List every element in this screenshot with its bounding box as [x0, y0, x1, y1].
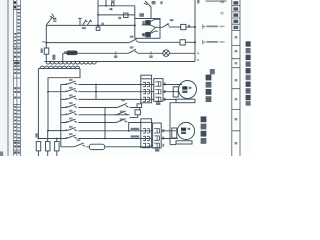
ladder bus V3	[60, 85, 62, 147]
ladder contact labels	[69, 79, 73, 81]
XT1 plug 1	[155, 82, 161, 86]
label above lamp-line switch	[130, 46, 134, 48]
wire y25.4 left section	[46, 24, 98, 26]
ticks left of dark component	[64, 51, 65, 53]
coil K2 leads	[142, 31, 158, 34]
resistor R3	[55, 142, 60, 151]
annotation right of bus wire1	[203, 24, 206, 29]
left supply bus x46.3	[45, 25, 47, 48]
motor1 bottom bar	[176, 99, 195, 103]
motor M1 vertical label text	[206, 75, 212, 102]
switch QS blade	[46, 14, 54, 25]
XP1 plug 3	[143, 97, 149, 101]
lamp HL	[163, 50, 170, 57]
right strip text blobs	[221, 1, 239, 145]
XT1 plug 2	[155, 90, 161, 94]
motor M2 vertical label text	[201, 116, 207, 143]
motor2 bottom bar	[176, 141, 192, 144]
sheet left border line	[7, 0, 9, 156]
mid contact rung 4	[117, 103, 128, 107]
fuse box FU2	[180, 40, 185, 45]
contact on lamp line	[129, 49, 138, 53]
junction wire inside box joining coils to exit	[150, 25, 160, 32]
mid contact rung 6	[116, 119, 127, 123]
cropped top text row right	[197, 0, 199, 3]
secondary right drop and jog to rail V2	[48, 69, 80, 131]
far right vertical drawing title text	[246, 41, 251, 105]
ladder rung 1	[61, 84, 154, 86]
connector strip XP1 (left half of terminal pair)	[141, 75, 152, 103]
label right of pilot box	[101, 23, 103, 25]
label left of top contact	[139, 13, 144, 17]
switch on bottom line	[74, 143, 85, 147]
pilot box hanging at x98	[97, 25, 99, 27]
tick on wire y42.3	[42, 41, 44, 42]
tick labels near right cap	[197, 53, 199, 55]
wire y27.3 from box to contact	[160, 26, 162, 28]
motor2 capacitor box	[172, 128, 177, 138]
coil K1 leads	[142, 19, 160, 25]
fuse box FU1	[181, 24, 186, 29]
ladder rung 7 into XT2	[48, 130, 153, 132]
wire FU1 to bus	[186, 26, 195, 28]
relay coil K1	[146, 21, 151, 26]
transformer secondary winding bumps	[40, 66, 80, 68]
contact rung 1	[66, 81, 77, 84]
contact rung 7	[66, 127, 77, 130]
riser from motor1 loop down	[170, 103, 176, 145]
tap from lamp line down to primary	[62, 53, 64, 61]
wire from riser to motor2 bar	[170, 144, 176, 146]
contact rung 6	[66, 119, 77, 122]
tick on lamp line x151	[150, 51, 152, 54]
right title strip frame	[232, 0, 240, 156]
XP1 plug 1	[143, 82, 149, 86]
stray label lower right annotation	[210, 69, 215, 74]
resistor R1 under rail V1	[36, 142, 41, 151]
contact rung 3	[66, 96, 77, 99]
vertical wire x106	[105, 0, 107, 6]
vertical link x96 rungs 1-3	[95, 85, 97, 100]
link x128.7 rung6 to rung7	[128, 123, 130, 131]
long wire y42.3	[46, 41, 180, 43]
XP2 plug 1	[143, 129, 149, 133]
contact rung 8	[66, 135, 77, 138]
vertical wire x98	[97, 0, 99, 25]
transformer primary winding bumps	[46, 62, 96, 65]
lamp line y53.3	[63, 52, 195, 54]
label left of component y14.9	[118, 17, 121, 19]
contact on y42.3	[129, 39, 138, 43]
label QS	[53, 18, 56, 20]
mid contact labels	[121, 99, 125, 101]
motor1 feed wires	[163, 85, 182, 92]
terminal block XT1	[154, 79, 163, 102]
XP2 plug 3	[143, 143, 149, 147]
component on bottom line	[89, 144, 104, 149]
thermal element on y5.8	[112, 3, 114, 6]
resistor R2 under rail V2	[46, 142, 51, 151]
wire rung3 to motor1 loop bar	[163, 98, 176, 100]
dark component on lamp line	[67, 51, 78, 55]
contact rung 5	[66, 111, 77, 114]
label box right of top contact	[152, 1, 156, 4]
XT2 pin labels	[162, 129, 164, 132]
label between FU1 and bus	[188, 25, 190, 28]
ladder rung 4	[61, 107, 140, 109]
faint marks left of right strip	[221, 1, 225, 3]
terminal block XT2	[153, 123, 162, 148]
stub up at x80	[78, 18, 82, 25]
ladder rung 2	[48, 91, 154, 93]
contact rung 4	[66, 104, 77, 107]
contact on y27.3	[163, 23, 170, 27]
ladder rung 6	[61, 122, 141, 124]
label above thermal element	[111, 0, 115, 2]
XP1 plug 2	[143, 90, 149, 94]
XP2 plug 2	[143, 136, 149, 140]
arrow mark under y5.8	[109, 8, 112, 10]
XT1 plug 3	[155, 97, 161, 101]
paper tint left edge	[0, 0, 12, 156]
wire y27 to fuse FU1	[169, 26, 181, 28]
ladder rung 8 into XT2	[38, 138, 152, 140]
resistor bank label	[35, 133, 37, 137]
XT2 plug 3	[154, 143, 160, 147]
right bus x195	[194, 0, 196, 53]
label above contact y27.3	[170, 19, 174, 21]
label above switch y42.3	[130, 36, 134, 38]
XT2 plug 1	[154, 129, 160, 133]
feed from y5.8 down relay box edge	[134, 6, 136, 19]
component on y14.9	[124, 13, 128, 17]
bottom control line y146.8	[61, 145, 153, 147]
contact pair rising from wire y25.4	[83, 20, 92, 26]
small text labels and annotation marks	[35, 0, 226, 152]
label 220 right of fuse	[52, 55, 55, 60]
relay coil K2	[146, 32, 151, 37]
left strip text blobs	[14, 1, 20, 154]
top contact KM above relay box	[144, 1, 151, 19]
coil K1 label ticks	[142, 21, 144, 25]
motor M1 inner M~ mark	[182, 86, 191, 93]
fuse on left supply bus	[44, 48, 49, 54]
R220 label above rung7	[131, 128, 140, 130]
relay enclosure box	[135, 19, 160, 39]
XT1 name label	[156, 102, 160, 105]
wire FU2 to bus	[185, 41, 195, 43]
R220 label above rung8	[131, 135, 140, 137]
ladder rung 3	[61, 98, 154, 100]
XT2 plug 2	[154, 136, 160, 140]
mid contact rung 5	[115, 111, 130, 115]
relay coil box between rung4 and rung5	[138, 108, 140, 118]
right cap joining lamp line and primary	[194, 53, 196, 61]
wire y25.4 right section to relay box	[98, 24, 135, 26]
left title strip frame	[13, 0, 20, 157]
XT1 pin labels	[164, 82, 166, 85]
motor M1 circle	[179, 81, 197, 99]
top wire y5.8	[98, 5, 135, 7]
transformer primary wire y61	[45, 61, 196, 63]
wire y14.9	[98, 14, 135, 16]
motor1 capacitor box	[173, 87, 178, 97]
transformer secondary wire y68.3	[38, 68, 80, 70]
left rail V1 from secondary left end	[37, 69, 39, 139]
corner smudge bottom-left	[0, 152, 3, 157]
annotation right of bus wire2	[203, 40, 206, 45]
XT2 name label	[155, 149, 159, 152]
ladder rung 5	[61, 114, 116, 116]
vertical link x105 rungs 4-8	[104, 108, 106, 139]
bottom switch label	[77, 139, 81, 141]
contact rung 2	[66, 88, 77, 91]
motor M2 circle	[177, 122, 194, 139]
connector strip XP2 (left half of terminal pair)	[141, 119, 152, 148]
motor M2 inner M~ mark	[181, 128, 190, 134]
motor2 feed wires	[161, 131, 178, 139]
labels under contact pair	[82, 27, 86, 29]
tick label FU left of fuse	[41, 48, 43, 53]
tick on lamp line x115.8	[115, 51, 117, 54]
coil K2 label ticks	[142, 33, 144, 37]
